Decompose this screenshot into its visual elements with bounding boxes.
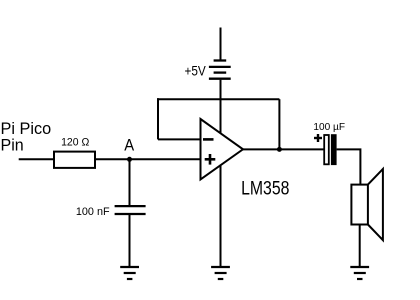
svg-text:+5V: +5V — [185, 63, 206, 78]
capacitor C 100nF top plate — [115, 205, 146, 207]
plus sign of polarized cap — [314, 134, 322, 142]
wire battery top terminal — [220, 28, 222, 60]
resistor R 120 ohm — [54, 152, 95, 168]
svg-text:A: A — [124, 135, 134, 154]
wire capacitor to ground — [129, 215, 131, 266]
wire op-amp output — [243, 148, 324, 150]
svg-text:100 µF: 100 µF — [313, 121, 345, 133]
speaker cone — [368, 169, 383, 240]
wire op-amp V- to ground — [220, 165, 222, 267]
feedback wire: left vertical of loop — [157, 98, 159, 139]
svg-text:Pi Pico: Pi Pico — [1, 120, 52, 138]
feedback wire: top horizontal of loop — [157, 98, 279, 100]
speaker LS1 body — [351, 185, 368, 225]
capacitor C 100uF negative plate (hollow) — [324, 135, 329, 164]
wire battery to op-amp V+ — [220, 80, 222, 135]
capacitor C 100nF bottom plate — [115, 213, 146, 215]
svg-text:120 Ω: 120 Ω — [61, 137, 89, 149]
wire to inverting input — [158, 138, 201, 140]
svg-text:100 nF: 100 nF — [76, 206, 110, 218]
capacitor C 100uF positive plate (solid bar) — [331, 134, 337, 165]
svg-text:Pin: Pin — [1, 137, 24, 155]
ground under op-amp — [211, 267, 230, 279]
op-amp U1 LM358 triangle — [201, 119, 244, 180]
ground under capacitor — [120, 267, 139, 279]
node A junction dot — [127, 157, 132, 162]
wire capacitor to speaker corner — [337, 149, 361, 185]
feedback wire: right vertical down to output — [278, 99, 280, 149]
ground under speaker — [350, 267, 369, 279]
wire resistor to op-amp plus input — [95, 158, 201, 160]
wire speaker to ground — [359, 225, 361, 267]
wire node A down to capacitor — [129, 159, 131, 205]
battery +5V — [209, 61, 231, 79]
wire input left — [19, 158, 54, 160]
output junction dot — [277, 147, 282, 152]
op-amp plus symbol — [205, 154, 216, 165]
svg-text:LM358: LM358 — [241, 178, 289, 199]
op-amp minus symbol — [203, 138, 214, 141]
